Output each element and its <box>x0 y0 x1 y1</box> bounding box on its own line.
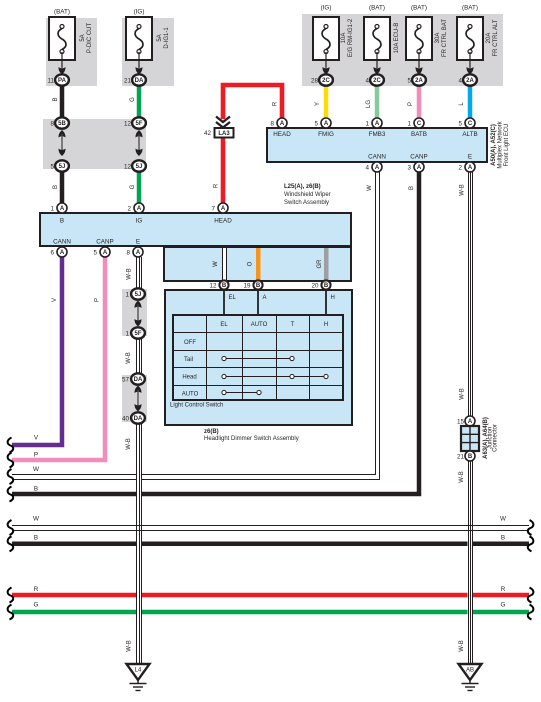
svg-text:L4: L4 <box>135 668 142 674</box>
break B lower <box>8 536 14 551</box>
svg-text:1: 1 <box>365 121 369 128</box>
svg-text:11: 11 <box>47 78 54 85</box>
fuse 10A E/G RM-IG1-2 <box>313 5 354 75</box>
svg-text:40: 40 <box>122 416 130 423</box>
svg-text:H: H <box>331 295 335 301</box>
connector 21 DA <box>124 74 146 85</box>
pin 1 A wiper <box>50 203 67 213</box>
svg-text:A: A <box>280 121 285 127</box>
svg-text:C: C <box>468 121 473 127</box>
connector block bg 5B/5J <box>43 119 146 169</box>
wire W-B junction to ground AB <box>468 461 474 664</box>
svg-text:Switch Assembly: Switch Assembly <box>284 200 329 206</box>
break W upper <box>8 469 14 484</box>
svg-text:H: H <box>324 322 328 328</box>
svg-text:8: 8 <box>270 121 274 128</box>
svg-text:W-B: W-B <box>459 471 465 483</box>
wire P fuse to BATB <box>417 85 422 119</box>
svg-text:DA: DA <box>134 377 143 383</box>
fuse 5A D-IG1-1 <box>126 9 170 75</box>
pin 19 B strip <box>243 280 262 289</box>
pin 2 A wiper <box>127 203 144 213</box>
wire label G2 <box>130 184 136 189</box>
svg-text:B: B <box>60 218 64 225</box>
wire W-B 5F to DA <box>136 338 142 375</box>
wire W strip <box>222 248 227 280</box>
svg-text:A: A <box>417 165 422 171</box>
svg-text:A: A <box>60 206 65 212</box>
svg-text:CANP: CANP <box>410 154 428 161</box>
svg-text:B: B <box>53 185 59 189</box>
svg-text:W-B: W-B <box>460 388 466 400</box>
wire label G <box>130 97 136 102</box>
svg-text:CANN: CANN <box>368 154 386 161</box>
svg-text:B: B <box>53 97 59 101</box>
label B bus lower left <box>34 535 38 542</box>
svg-text:W-B: W-B <box>126 352 132 364</box>
break R right <box>528 588 534 603</box>
arrow pair 5J-5F <box>135 301 142 327</box>
svg-text:(BAT): (BAT) <box>369 5 385 12</box>
svg-text:1: 1 <box>125 292 129 299</box>
svg-text:12: 12 <box>124 164 132 171</box>
label V bus <box>34 435 39 442</box>
connector 12 5F <box>124 117 146 128</box>
svg-text:8: 8 <box>126 250 130 257</box>
pin 4 A CANN <box>365 162 382 172</box>
connector 12 5J <box>124 160 146 171</box>
svg-text:4: 4 <box>365 78 369 85</box>
svg-text:E/G RM-IG1-2: E/G RM-IG1-2 <box>348 18 354 57</box>
svg-text:5: 5 <box>50 164 54 171</box>
connector 57 DA <box>122 373 145 384</box>
pin 21 B junction <box>457 451 475 461</box>
wire GR strip <box>324 248 329 280</box>
pin 5 C ALTB <box>458 118 475 128</box>
svg-text:3: 3 <box>407 165 411 172</box>
break W lower <box>8 520 14 535</box>
svg-text:FMB3: FMB3 <box>369 131 386 138</box>
svg-text:A: A <box>221 206 226 212</box>
svg-text:V: V <box>34 435 39 442</box>
wire W CANN ecu bus <box>12 172 380 480</box>
wire W-B wiper E to 5J <box>136 257 142 290</box>
pin 1 A FMB3 <box>365 118 382 128</box>
connector 11 PA <box>47 74 68 85</box>
svg-text:12: 12 <box>209 283 217 290</box>
svg-text:HEAD: HEAD <box>214 218 232 225</box>
svg-text:LA3: LA3 <box>218 131 230 137</box>
svg-text:AUTO: AUTO <box>251 322 268 328</box>
wire label W-B below junction <box>459 471 465 483</box>
pin 2 A E <box>458 162 475 172</box>
wire B 5J to pin1 <box>60 171 65 204</box>
arrow pair DA-DA <box>135 386 142 412</box>
svg-text:HEAD: HEAD <box>273 131 291 138</box>
svg-text:D-IG1-1: D-IG1-1 <box>164 27 170 49</box>
svg-text:12: 12 <box>124 121 132 128</box>
svg-text:10A ECU-B: 10A ECU-B <box>394 23 400 54</box>
wire labels W B WB under ecu <box>367 185 373 191</box>
svg-text:1: 1 <box>50 206 54 213</box>
svg-text:5J: 5J <box>59 164 66 170</box>
svg-text:B: B <box>256 283 261 289</box>
wire LG fuse to FMB3 <box>375 85 380 119</box>
svg-text:5: 5 <box>314 121 318 128</box>
arrow pair 5B-5J <box>59 130 66 156</box>
pin 8 A wiper E <box>126 247 143 257</box>
fuse 10A ECU-B <box>364 5 400 75</box>
svg-text:FR CTRL ALT: FR CTRL ALT <box>493 19 499 56</box>
wire R bus <box>12 593 529 598</box>
svg-text:21: 21 <box>124 78 132 85</box>
svg-text:Front Light ECU: Front Light ECU <box>504 123 510 166</box>
pin 8 A HEAD <box>270 118 287 128</box>
fuse block bg left 1 <box>46 18 97 86</box>
label B bus upper <box>34 486 38 493</box>
wire G 5J to pin2 <box>137 171 142 204</box>
svg-text:O: O <box>248 261 254 266</box>
svg-text:AB: AB <box>466 668 474 674</box>
pin 12 B strip <box>209 280 228 289</box>
dimmer lead labels <box>229 295 335 301</box>
svg-text:5J: 5J <box>135 292 142 298</box>
svg-text:EL: EL <box>229 295 237 301</box>
svg-text:P: P <box>34 452 38 459</box>
contact row Tail <box>222 356 294 360</box>
svg-text:30A: 30A <box>435 33 441 44</box>
svg-text:CANN: CANN <box>53 239 71 246</box>
svg-text:W-B: W-B <box>127 640 133 652</box>
break B lower right <box>528 536 534 551</box>
wire W-B DA to ground L4 <box>136 423 142 664</box>
contact row Head <box>222 374 328 378</box>
wire labels V P WB below wiper <box>52 298 58 302</box>
junction side label <box>483 417 499 459</box>
svg-text:A: A <box>136 250 141 256</box>
wire label R left <box>214 183 220 188</box>
light control switch label <box>170 403 223 409</box>
fuse 30A FR CTRL BAT <box>406 5 448 75</box>
arrow pair 5F-5J <box>136 130 143 156</box>
svg-text:W-B: W-B <box>127 268 133 280</box>
svg-text:28: 28 <box>311 78 319 85</box>
svg-text:B: B <box>34 486 38 493</box>
svg-text:PA: PA <box>58 78 67 84</box>
connector 1 5F <box>125 327 144 338</box>
svg-text:5F: 5F <box>134 331 141 337</box>
label R bus right <box>501 586 506 593</box>
fuse block bg left 2 <box>122 18 174 86</box>
svg-text:B: B <box>324 283 329 289</box>
svg-text:2: 2 <box>458 165 462 172</box>
svg-text:B: B <box>409 186 415 190</box>
svg-text:CANP: CANP <box>96 239 114 246</box>
wire label B <box>53 97 59 101</box>
dimmer box title <box>204 429 299 442</box>
label R bus left <box>34 586 39 593</box>
svg-text:C: C <box>417 121 422 127</box>
pin 15 A junction <box>457 416 475 426</box>
break P <box>8 453 14 468</box>
wiper box title <box>284 184 331 206</box>
svg-text:20: 20 <box>311 283 319 290</box>
wire label W-B near ground L4 <box>127 640 133 652</box>
svg-text:z6(B): z6(B) <box>204 429 219 435</box>
svg-text:15: 15 <box>457 419 465 426</box>
svg-text:P: P <box>95 298 101 302</box>
ECU A50 pin names <box>273 131 477 161</box>
svg-text:G: G <box>130 97 136 102</box>
connector 1 5J <box>125 288 144 299</box>
wire G bus <box>12 610 529 615</box>
svg-text:5J: 5J <box>136 164 143 170</box>
svg-text:(BAT): (BAT) <box>462 5 478 12</box>
connector block bg DA/DA <box>122 375 147 422</box>
svg-text:Windshield Wiper: Windshield Wiper <box>284 192 331 198</box>
svg-text:R: R <box>34 586 39 593</box>
svg-text:Headlight Dimmer Switch Assemb: Headlight Dimmer Switch Assembly <box>204 436 299 442</box>
svg-text:W: W <box>367 185 373 191</box>
wire G fuse2 to 5F <box>137 85 142 118</box>
svg-text:FR CTRL BAT: FR CTRL BAT <box>442 19 448 57</box>
svg-text:A: A <box>60 250 65 256</box>
wire label W-B mid <box>126 352 132 364</box>
svg-text:2C: 2C <box>322 78 330 84</box>
svg-text:GR: GR <box>317 259 323 269</box>
connector block bg 5J/5F <box>122 289 147 336</box>
break G right <box>528 605 534 620</box>
svg-text:A: A <box>375 121 380 127</box>
wire label W-B near ground AB <box>459 640 465 652</box>
svg-text:5F: 5F <box>135 121 142 127</box>
svg-text:1: 1 <box>125 331 129 338</box>
svg-text:DA: DA <box>134 416 143 422</box>
junction connector A63 A64 <box>461 426 479 451</box>
svg-text:A: A <box>324 121 329 127</box>
svg-text:W-B: W-B <box>459 640 465 652</box>
label W bus lower right <box>500 516 506 523</box>
svg-text:2: 2 <box>127 206 131 213</box>
svg-text:LG: LG <box>366 100 372 108</box>
label W bus lower left <box>33 516 39 523</box>
svg-text:19: 19 <box>243 283 251 290</box>
svg-text:(BAT): (BAT) <box>411 5 427 12</box>
svg-text:Connector: Connector <box>493 424 499 452</box>
svg-text:Tail: Tail <box>184 357 193 363</box>
svg-text:W: W <box>500 516 506 523</box>
svg-text:B: B <box>34 535 38 542</box>
inner wire strip box <box>164 247 351 281</box>
ECU A50 side label <box>491 120 510 168</box>
break V <box>8 438 14 453</box>
wire B bus lower <box>12 542 529 547</box>
lead EL <box>223 290 225 316</box>
lead H <box>325 290 327 316</box>
wire B fuse1 to 5B <box>60 85 65 118</box>
svg-text:L25(A), z6(B): L25(A), z6(B) <box>284 184 321 190</box>
pin 20 B strip <box>311 280 330 289</box>
svg-text:2A: 2A <box>466 78 474 84</box>
svg-text:T: T <box>291 322 295 328</box>
svg-text:20A: 20A <box>486 33 492 44</box>
svg-text:Head: Head <box>182 375 196 381</box>
label G bus right <box>501 602 506 609</box>
pin 5 A FMIG <box>314 118 331 128</box>
svg-text:(IG): (IG) <box>134 9 145 16</box>
fuse 20A FR CTRL ALT <box>457 5 499 75</box>
svg-text:2C: 2C <box>373 78 381 84</box>
svg-text:P: P <box>408 102 414 106</box>
wire labels Y LG P L <box>315 102 321 106</box>
svg-text:R: R <box>501 586 506 593</box>
svg-text:5A: 5A <box>80 34 86 41</box>
wire V CANN wiper <box>12 257 62 445</box>
svg-text:21: 21 <box>457 454 465 461</box>
svg-text:5A: 5A <box>157 34 163 41</box>
connector 5 5J <box>50 160 68 171</box>
svg-text:W: W <box>33 466 39 473</box>
svg-text:A: A <box>137 206 142 212</box>
table texts <box>182 322 328 398</box>
pin 7 A wiper HEAD <box>211 203 228 213</box>
svg-text:7: 7 <box>211 206 215 213</box>
wire W bus lower (over verticals) <box>12 526 529 531</box>
svg-text:A: A <box>103 250 108 256</box>
svg-text:1: 1 <box>407 121 411 128</box>
label B bus lower right <box>501 535 505 542</box>
svg-text:57: 57 <box>122 377 130 384</box>
svg-text:A50(A), A52(C): A50(A), A52(C) <box>491 124 497 166</box>
svg-text:EL: EL <box>220 322 228 328</box>
svg-text:A: A <box>375 165 380 171</box>
wire O strip <box>256 248 261 280</box>
svg-text:42: 42 <box>204 130 212 137</box>
break R <box>8 588 14 603</box>
svg-text:(BAT): (BAT) <box>54 9 70 16</box>
svg-text:A: A <box>263 295 267 301</box>
strip wire labels <box>213 261 219 267</box>
break W lower right <box>528 520 534 535</box>
svg-text:L: L <box>459 102 465 106</box>
svg-text:Multiplex Network: Multiplex Network <box>498 120 504 168</box>
break G <box>8 605 14 620</box>
svg-text:DA: DA <box>135 78 144 84</box>
svg-text:Y: Y <box>315 102 321 106</box>
svg-text:(IG): (IG) <box>321 5 332 12</box>
connector 4 2A <box>458 74 476 85</box>
svg-text:A: A <box>468 165 473 171</box>
wire B CANP ecu bus <box>12 172 419 494</box>
svg-text:B: B <box>468 454 473 460</box>
wire R HEAD loop <box>223 85 282 204</box>
break B upper <box>8 487 14 502</box>
connector 4 2C <box>365 74 383 85</box>
pin 1 C BATB <box>407 118 424 128</box>
svg-text:10A: 10A <box>341 33 347 44</box>
svg-text:2A: 2A <box>415 78 423 84</box>
wire label W-B low <box>126 438 132 450</box>
junction chevron 42 LA3 <box>204 117 234 138</box>
svg-text:B: B <box>222 283 227 289</box>
svg-text:P-DIC CUT: P-DIC CUT <box>87 23 93 54</box>
label P bus <box>34 452 38 459</box>
wire W-B ecu E to junction <box>468 172 474 416</box>
svg-text:5: 5 <box>93 250 97 257</box>
svg-text:W-B: W-B <box>460 184 466 196</box>
wire P CANP wiper <box>12 257 105 460</box>
svg-text:IG: IG <box>136 218 143 225</box>
fuse 5A P-DIC CUT <box>49 9 93 75</box>
svg-text:G: G <box>501 602 506 609</box>
label G bus left <box>34 602 39 609</box>
connector 40 DA <box>122 412 145 423</box>
wire label R right <box>273 101 279 106</box>
wire label B2 <box>53 185 59 189</box>
svg-text:B: B <box>501 535 505 542</box>
svg-text:W: W <box>33 516 39 523</box>
connector 5 2A <box>407 74 425 85</box>
wire Y fuse to FMIG <box>324 85 329 119</box>
svg-text:A: A <box>468 419 473 425</box>
pin 6 A wiper CANN <box>50 247 67 257</box>
connector 28 2C <box>311 74 333 85</box>
svg-text:5: 5 <box>458 121 462 128</box>
svg-text:V: V <box>52 298 58 302</box>
svg-text:E: E <box>468 154 472 161</box>
svg-text:5: 5 <box>407 78 411 85</box>
svg-text:W-B: W-B <box>126 438 132 450</box>
svg-text:E: E <box>136 239 140 246</box>
ground AB <box>459 664 482 691</box>
svg-text:G: G <box>34 602 39 609</box>
svg-text:Light Control Switch: Light Control Switch <box>170 403 223 409</box>
fuse block bg right <box>302 14 503 86</box>
svg-text:R: R <box>273 101 279 106</box>
wiper switch box <box>40 213 351 246</box>
ground L4 <box>127 664 150 691</box>
wire L fuse to ALTB <box>468 85 473 119</box>
pin 3 A CANP <box>407 162 424 172</box>
svg-text:6: 6 <box>50 250 54 257</box>
connector 8 5B <box>50 117 68 128</box>
svg-text:OFF: OFF <box>184 340 196 346</box>
lead A <box>257 290 259 316</box>
svg-text:BATB: BATB <box>411 131 427 138</box>
svg-text:R: R <box>214 183 220 188</box>
wiper pin names <box>53 218 232 246</box>
light control switch table <box>173 315 343 400</box>
wire label W-B above junction <box>460 388 466 400</box>
dimmer switch box <box>165 290 352 425</box>
pin 5 A wiper CANP <box>93 247 110 257</box>
svg-text:G: G <box>130 184 136 189</box>
svg-text:4: 4 <box>458 78 462 85</box>
svg-text:4: 4 <box>365 165 369 172</box>
svg-text:5B: 5B <box>58 121 66 127</box>
svg-text:AUTO: AUTO <box>182 392 199 398</box>
ECU A50 box <box>267 128 487 162</box>
svg-text:8: 8 <box>50 121 54 128</box>
label W bus upper <box>33 466 39 473</box>
svg-text:FMIG: FMIG <box>318 131 334 138</box>
svg-text:ALTB: ALTB <box>462 131 477 138</box>
svg-text:W: W <box>213 261 219 267</box>
contact row AUTO <box>222 390 261 394</box>
